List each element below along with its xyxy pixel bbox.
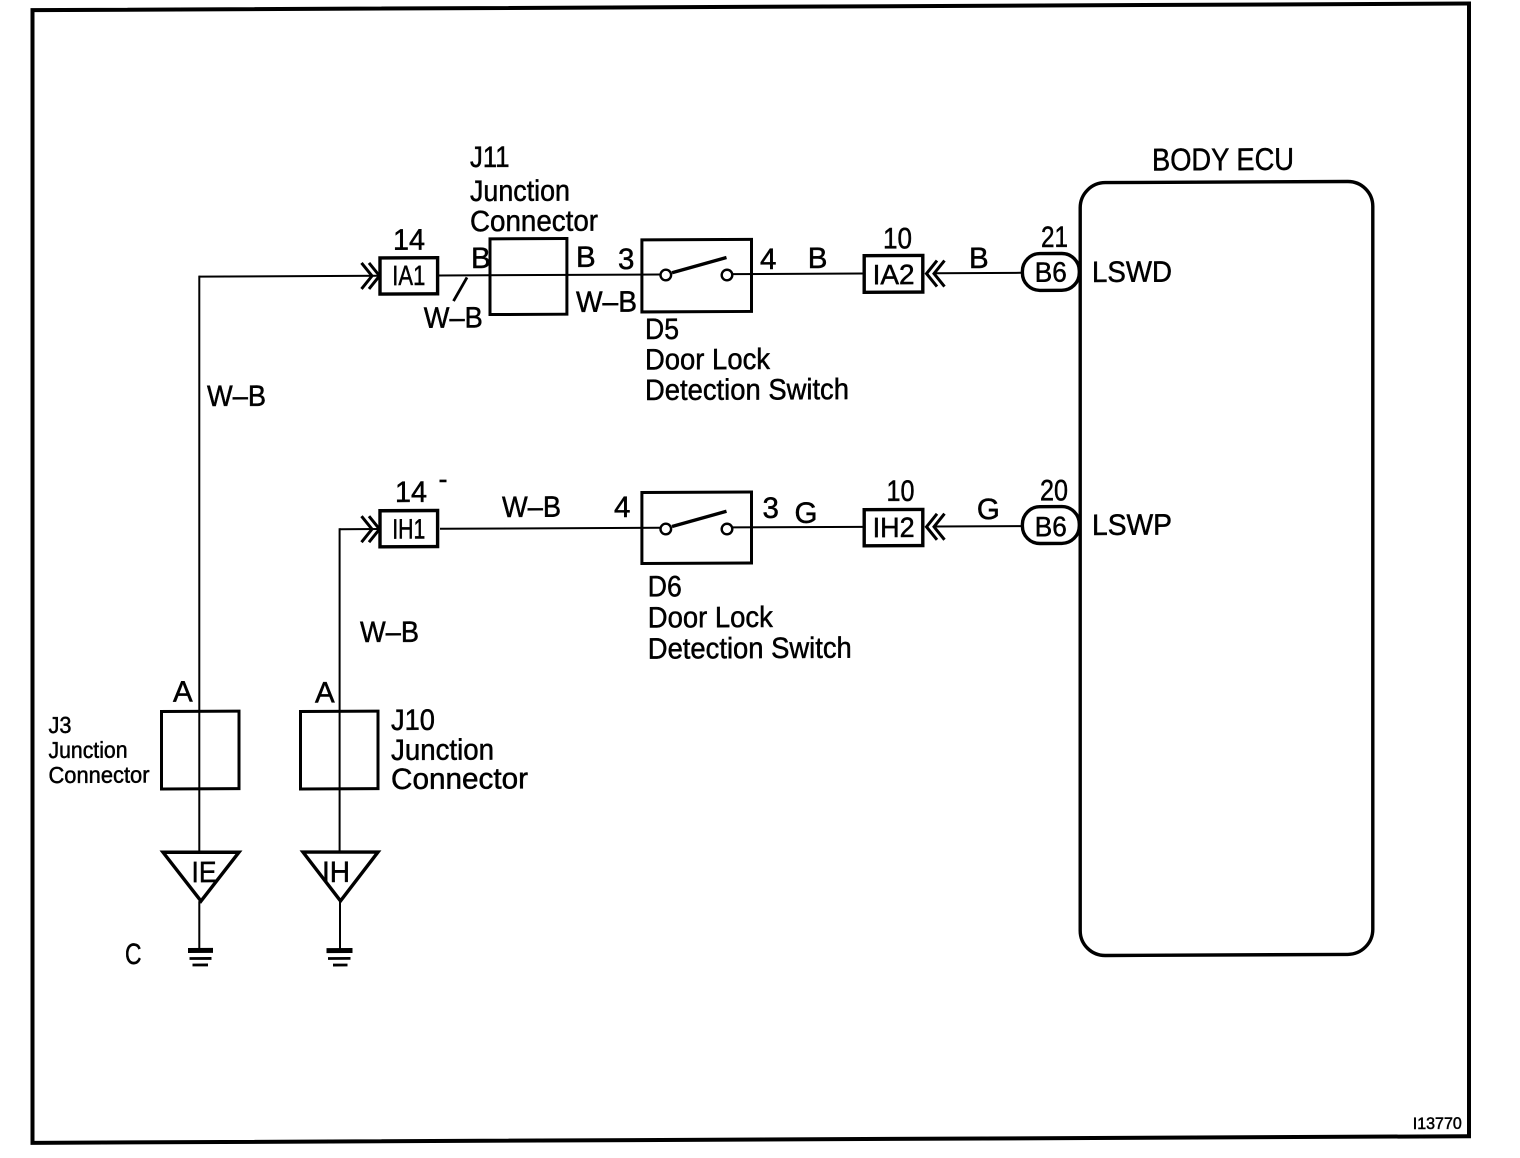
svg-text:B: B (808, 242, 828, 275)
svg-text:I13770: I13770 (1413, 1115, 1462, 1133)
svg-text:W–B: W–B (576, 286, 637, 319)
svg-text:J3: J3 (49, 712, 72, 738)
svg-text:IA1: IA1 (392, 260, 425, 291)
svg-text:B: B (471, 242, 491, 275)
svg-text:IH2: IH2 (873, 512, 915, 543)
svg-text:B6: B6 (1035, 511, 1067, 542)
svg-text:Detection Switch: Detection Switch (645, 373, 849, 407)
svg-text:4: 4 (614, 491, 630, 524)
svg-text:J11: J11 (470, 141, 510, 174)
svg-text:LSWD: LSWD (1092, 256, 1172, 289)
svg-text:Door Lock: Door Lock (648, 601, 773, 635)
svg-text:B6: B6 (1035, 257, 1067, 288)
svg-text:B: B (969, 242, 989, 275)
svg-text:W–B: W–B (207, 380, 266, 413)
svg-text:3: 3 (763, 492, 779, 525)
svg-text:Connector: Connector (49, 762, 150, 788)
svg-text:IE: IE (192, 856, 217, 889)
svg-text:G: G (977, 493, 1000, 526)
svg-text:Door Lock: Door Lock (645, 343, 770, 377)
svg-text:J10: J10 (391, 704, 435, 737)
svg-text:Junction: Junction (470, 175, 570, 208)
svg-text:3: 3 (618, 243, 634, 276)
svg-text:Connector: Connector (391, 762, 528, 796)
svg-text:LSWP: LSWP (1092, 509, 1172, 542)
svg-text:Connector: Connector (470, 205, 598, 239)
svg-text:Junction: Junction (49, 737, 128, 763)
svg-text:C: C (125, 938, 142, 971)
svg-text:W–B: W–B (360, 616, 419, 649)
svg-text:B: B (576, 241, 596, 274)
svg-text:10: 10 (883, 222, 912, 255)
svg-text:IH1: IH1 (392, 513, 425, 544)
svg-text:IH: IH (322, 856, 350, 889)
svg-text:14: 14 (393, 224, 425, 257)
svg-text:D6: D6 (648, 570, 682, 603)
svg-text:A: A (173, 676, 193, 709)
svg-text:BODY ECU: BODY ECU (1152, 141, 1294, 178)
svg-text:G: G (795, 497, 818, 530)
svg-text:IA2: IA2 (873, 259, 915, 290)
svg-text:10: 10 (887, 475, 915, 508)
svg-text:20: 20 (1040, 474, 1068, 507)
svg-text:Detection Switch: Detection Switch (648, 632, 852, 666)
svg-text:21: 21 (1041, 221, 1068, 254)
svg-text:D5: D5 (645, 313, 679, 346)
svg-text:W–B: W–B (502, 491, 561, 524)
svg-text:W–B: W–B (424, 301, 483, 334)
svg-text:4: 4 (760, 243, 776, 276)
svg-text:14: 14 (395, 476, 427, 509)
svg-text:A: A (315, 676, 335, 709)
